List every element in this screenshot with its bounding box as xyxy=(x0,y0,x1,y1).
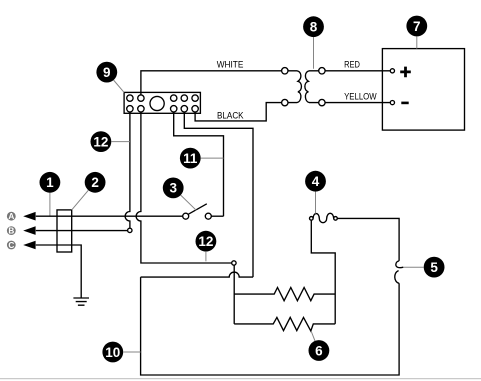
svg-text:BLACK: BLACK xyxy=(217,110,244,121)
wire from terminal b3 down to switch xyxy=(174,112,224,216)
node C gray circle xyxy=(7,241,16,250)
fuse F4 squiggle xyxy=(313,213,334,222)
arrow A xyxy=(23,212,35,221)
wire C to ground xyxy=(36,245,81,298)
leader callout 10 xyxy=(123,351,140,353)
resistor R1 row xyxy=(234,288,335,301)
connector P8 right scalloped element xyxy=(305,71,319,103)
wire from terminal b4 down and across xyxy=(184,112,253,277)
connector P8 right top circle xyxy=(319,68,325,74)
callout 3 xyxy=(163,178,184,199)
callout 2 xyxy=(85,172,106,193)
callout 7 xyxy=(406,16,427,37)
wire fuse left down to resistor right side xyxy=(311,220,335,324)
wire A xyxy=(36,215,183,217)
wire B xyxy=(36,230,128,232)
leader callout 9 xyxy=(114,80,125,92)
leader callout 3 xyxy=(181,195,197,210)
junction circle wire B xyxy=(128,228,132,232)
fuse F4 right circle xyxy=(334,217,338,221)
wire from node 12 down to resistors xyxy=(233,265,235,324)
wire V2 with hop over wire A xyxy=(136,112,232,263)
svg-text:4: 4 xyxy=(312,174,320,189)
callout 12 upper xyxy=(91,131,112,152)
wire fuse right to connector 5 xyxy=(337,218,399,261)
node B gray circle xyxy=(7,226,16,235)
leader callout 11 xyxy=(201,157,224,159)
ground symbol xyxy=(73,298,89,305)
svg-text:12: 12 xyxy=(198,234,213,249)
svg-text:3: 3 xyxy=(169,181,177,196)
leader callout 12a xyxy=(112,141,130,143)
svg-text:C: C xyxy=(8,241,14,250)
svg-text:11: 11 xyxy=(183,151,198,166)
wire lower horizontal with hop xyxy=(141,272,253,277)
terminal block circles bottom row xyxy=(127,106,199,112)
connector 5 lower hook xyxy=(395,271,399,284)
resistor R2 row xyxy=(234,317,335,331)
leader callout 5 xyxy=(404,266,424,268)
svg-text:6: 6 xyxy=(315,343,323,358)
battery + terminal circle xyxy=(390,69,394,73)
connector 5 upper hook xyxy=(396,261,403,268)
wire switch to vertical 11 xyxy=(211,215,223,217)
svg-text:YELLOW: YELLOW xyxy=(344,91,377,102)
svg-text:WHITE: WHITE xyxy=(217,59,244,70)
svg-text:B: B xyxy=(8,227,14,236)
leader callout 8 xyxy=(313,37,315,69)
callout 10 xyxy=(102,342,123,363)
svg-text:10: 10 xyxy=(105,345,120,360)
connector housing rect 2 xyxy=(57,210,72,252)
svg-text:5: 5 xyxy=(430,260,438,275)
callout 6 xyxy=(309,340,330,361)
callout 12 lower xyxy=(196,231,217,252)
node A gray circle xyxy=(7,212,16,221)
callout 8 xyxy=(303,16,324,37)
bottom gray rule xyxy=(0,378,481,380)
svg-text:7: 7 xyxy=(413,19,421,34)
switch S3 lever xyxy=(188,204,206,214)
callout 4 xyxy=(305,171,326,192)
wire V1 with hop over wire A xyxy=(125,112,130,228)
callout 5 xyxy=(424,257,445,278)
leader callout 2 xyxy=(72,190,89,210)
svg-text:1: 1 xyxy=(46,175,54,190)
terminal block circles top row xyxy=(127,95,199,101)
switch S3 left circle xyxy=(183,213,189,219)
arrow C xyxy=(23,241,35,250)
wire loop 10 left bottom right xyxy=(141,277,400,375)
junction circle node 12 xyxy=(232,261,236,265)
leader callout 6 xyxy=(311,332,315,341)
wire WHITE xyxy=(141,71,282,95)
svg-text:RED: RED xyxy=(344,59,360,70)
callout 9 xyxy=(96,62,117,83)
minus symbol xyxy=(401,102,408,105)
svg-text:2: 2 xyxy=(91,175,99,190)
switch S3 right circle xyxy=(205,213,211,219)
callout 1 xyxy=(40,172,61,193)
leader callout 4 xyxy=(315,192,317,214)
wire BLACK xyxy=(195,103,282,121)
leader callout 12b xyxy=(205,252,207,261)
connector P8 right bottom circle xyxy=(319,99,325,105)
leader callout 1 xyxy=(49,193,51,216)
svg-text:A: A xyxy=(8,212,14,221)
connector P8 left scalloped element xyxy=(288,71,301,103)
connector P8 left bottom circle xyxy=(282,99,288,105)
svg-text:9: 9 xyxy=(103,65,111,80)
terminal block TB9 body xyxy=(124,92,200,113)
terminal block big circle xyxy=(150,96,164,110)
plus symbol xyxy=(400,67,411,78)
battery - terminal circle xyxy=(390,101,394,105)
wire RED xyxy=(325,70,390,72)
connector P8 left top circle xyxy=(282,68,288,74)
svg-text:8: 8 xyxy=(310,20,318,35)
leader callout 7 xyxy=(416,36,418,48)
fuse F4 left circle xyxy=(310,217,314,221)
battery box U7 xyxy=(382,49,464,131)
arrow B xyxy=(23,226,35,235)
callout 11 xyxy=(180,148,201,169)
svg-text:12: 12 xyxy=(93,134,108,149)
wire YELLOW xyxy=(325,102,390,104)
